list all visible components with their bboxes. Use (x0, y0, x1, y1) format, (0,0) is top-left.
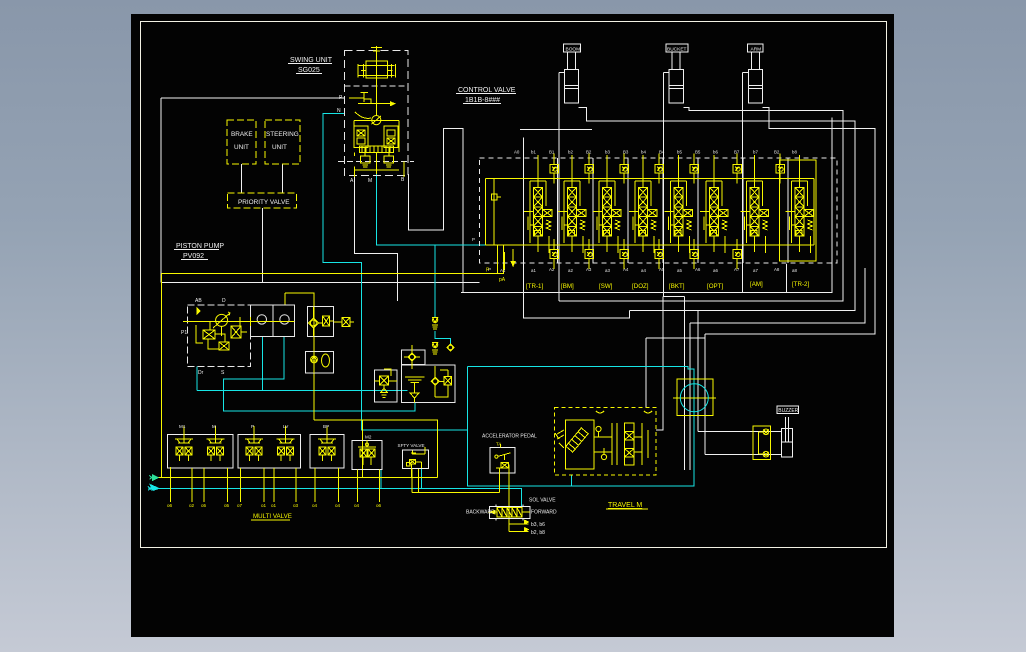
svg-text:b5: b5 (677, 150, 682, 155)
svg-text:SG025: SG025 (298, 67, 320, 74)
svg-text:a5: a5 (677, 268, 682, 273)
svg-text:TRAVEL M: TRAVEL M (608, 502, 642, 509)
svg-text:b3: b3 (605, 150, 610, 155)
svg-text:pA: pA (499, 277, 506, 283)
svg-text:BUZZER: BUZZER (778, 408, 798, 414)
svg-text:P: P (472, 237, 475, 242)
svg-text:o3: o3 (293, 503, 299, 508)
svg-text:PRIORITY VALVE: PRIORITY VALVE (238, 199, 290, 206)
svg-text:b4: b4 (641, 150, 646, 155)
svg-text:[OPT]: [OPT] (707, 283, 723, 290)
svg-text:b2: b2 (568, 150, 573, 155)
svg-text:CONTROL VALVE: CONTROL VALVE (458, 87, 516, 94)
svg-text:a8: a8 (792, 268, 797, 273)
svg-text:N: N (337, 108, 341, 114)
svg-text:o4: o4 (312, 503, 318, 508)
svg-text:BRAKE: BRAKE (231, 131, 253, 138)
svg-text:[TR-1]: [TR-1] (526, 283, 543, 290)
svg-text:ARM: ARM (751, 46, 762, 52)
svg-text:A5: A5 (659, 267, 665, 272)
svg-text:[DOZ]: [DOZ] (632, 283, 649, 290)
svg-text:[BKT]: [BKT] (669, 283, 685, 290)
svg-text:A6: A6 (695, 267, 701, 272)
svg-text:o4: o4 (354, 503, 360, 508)
svg-text:P: P (251, 424, 254, 429)
svg-text:BP: BP (323, 424, 329, 429)
svg-text:a1: a1 (531, 268, 536, 273)
svg-text:AB: AB (195, 298, 202, 304)
svg-text:b6: b6 (713, 150, 718, 155)
svg-text:Dr: Dr (198, 370, 204, 376)
svg-text:UNIT: UNIT (234, 144, 249, 151)
svg-text:b7: b7 (753, 150, 758, 155)
svg-text:MULTI VALVE: MULTI VALVE (253, 513, 292, 520)
svg-text:o4: o4 (335, 503, 341, 508)
svg-text:PV092: PV092 (183, 253, 204, 260)
svg-text:M2: M2 (365, 435, 372, 440)
svg-text:STEERING: STEERING (266, 131, 299, 138)
svg-text:M: M (368, 178, 372, 184)
svg-text:BOOM: BOOM (566, 46, 581, 52)
svg-text:o1: o1 (271, 503, 277, 508)
svg-text:o2: o2 (189, 503, 195, 508)
svg-text:b2, b8: b2, b8 (531, 530, 545, 536)
svg-text:PISTON PUMP: PISTON PUMP (176, 243, 224, 250)
svg-text:ACCELERATOR PEDAL: ACCELERATOR PEDAL (482, 434, 537, 440)
svg-text:a6: a6 (713, 268, 718, 273)
svg-text:B5: B5 (695, 150, 701, 155)
svg-text:B4: B4 (659, 150, 665, 155)
svg-text:BACKWARD: BACKWARD (466, 510, 495, 516)
svg-text:A0: A0 (514, 150, 520, 155)
svg-text:M1: M1 (179, 424, 186, 429)
svg-text:o1: o1 (261, 503, 267, 508)
svg-text:a2: a2 (568, 268, 573, 273)
svg-text:o6: o6 (167, 503, 173, 508)
svg-text:B2: B2 (774, 150, 780, 155)
svg-text:a7: a7 (753, 268, 758, 273)
svg-text:b3, b6: b3, b6 (531, 522, 545, 528)
svg-text:TA: TA (496, 442, 501, 447)
svg-text:D: D (222, 298, 226, 304)
svg-text:[BM]: [BM] (561, 283, 574, 290)
svg-text:o5: o5 (224, 503, 230, 508)
svg-text:b8: b8 (792, 150, 797, 155)
svg-text:[SW]: [SW] (599, 283, 613, 290)
svg-text:FORWARD: FORWARD (531, 510, 557, 516)
svg-text:SFTY VALVE: SFTY VALVE (398, 443, 425, 448)
svg-text:A8: A8 (774, 267, 780, 272)
svg-text:SOL VALVE: SOL VALVE (529, 498, 556, 504)
svg-text:[AM]: [AM] (750, 281, 763, 288)
svg-text:o5: o5 (201, 503, 207, 508)
svg-text:a4: a4 (641, 268, 646, 273)
svg-text:[TR-2]: [TR-2] (792, 281, 809, 288)
svg-text:M: M (212, 424, 216, 429)
svg-text:A1: A1 (500, 268, 506, 273)
svg-text:BUCKET: BUCKET (667, 46, 687, 52)
svg-text:UNIT: UNIT (272, 144, 287, 151)
svg-text:o6: o6 (376, 503, 382, 508)
svg-text:a3: a3 (605, 268, 610, 273)
svg-text:b1: b1 (531, 150, 536, 155)
svg-text:1B1B-8###: 1B1B-8### (465, 97, 500, 104)
svg-text:P1: P1 (181, 330, 187, 336)
svg-text:SWING UNIT: SWING UNIT (290, 57, 333, 64)
svg-text:o7: o7 (237, 503, 243, 508)
